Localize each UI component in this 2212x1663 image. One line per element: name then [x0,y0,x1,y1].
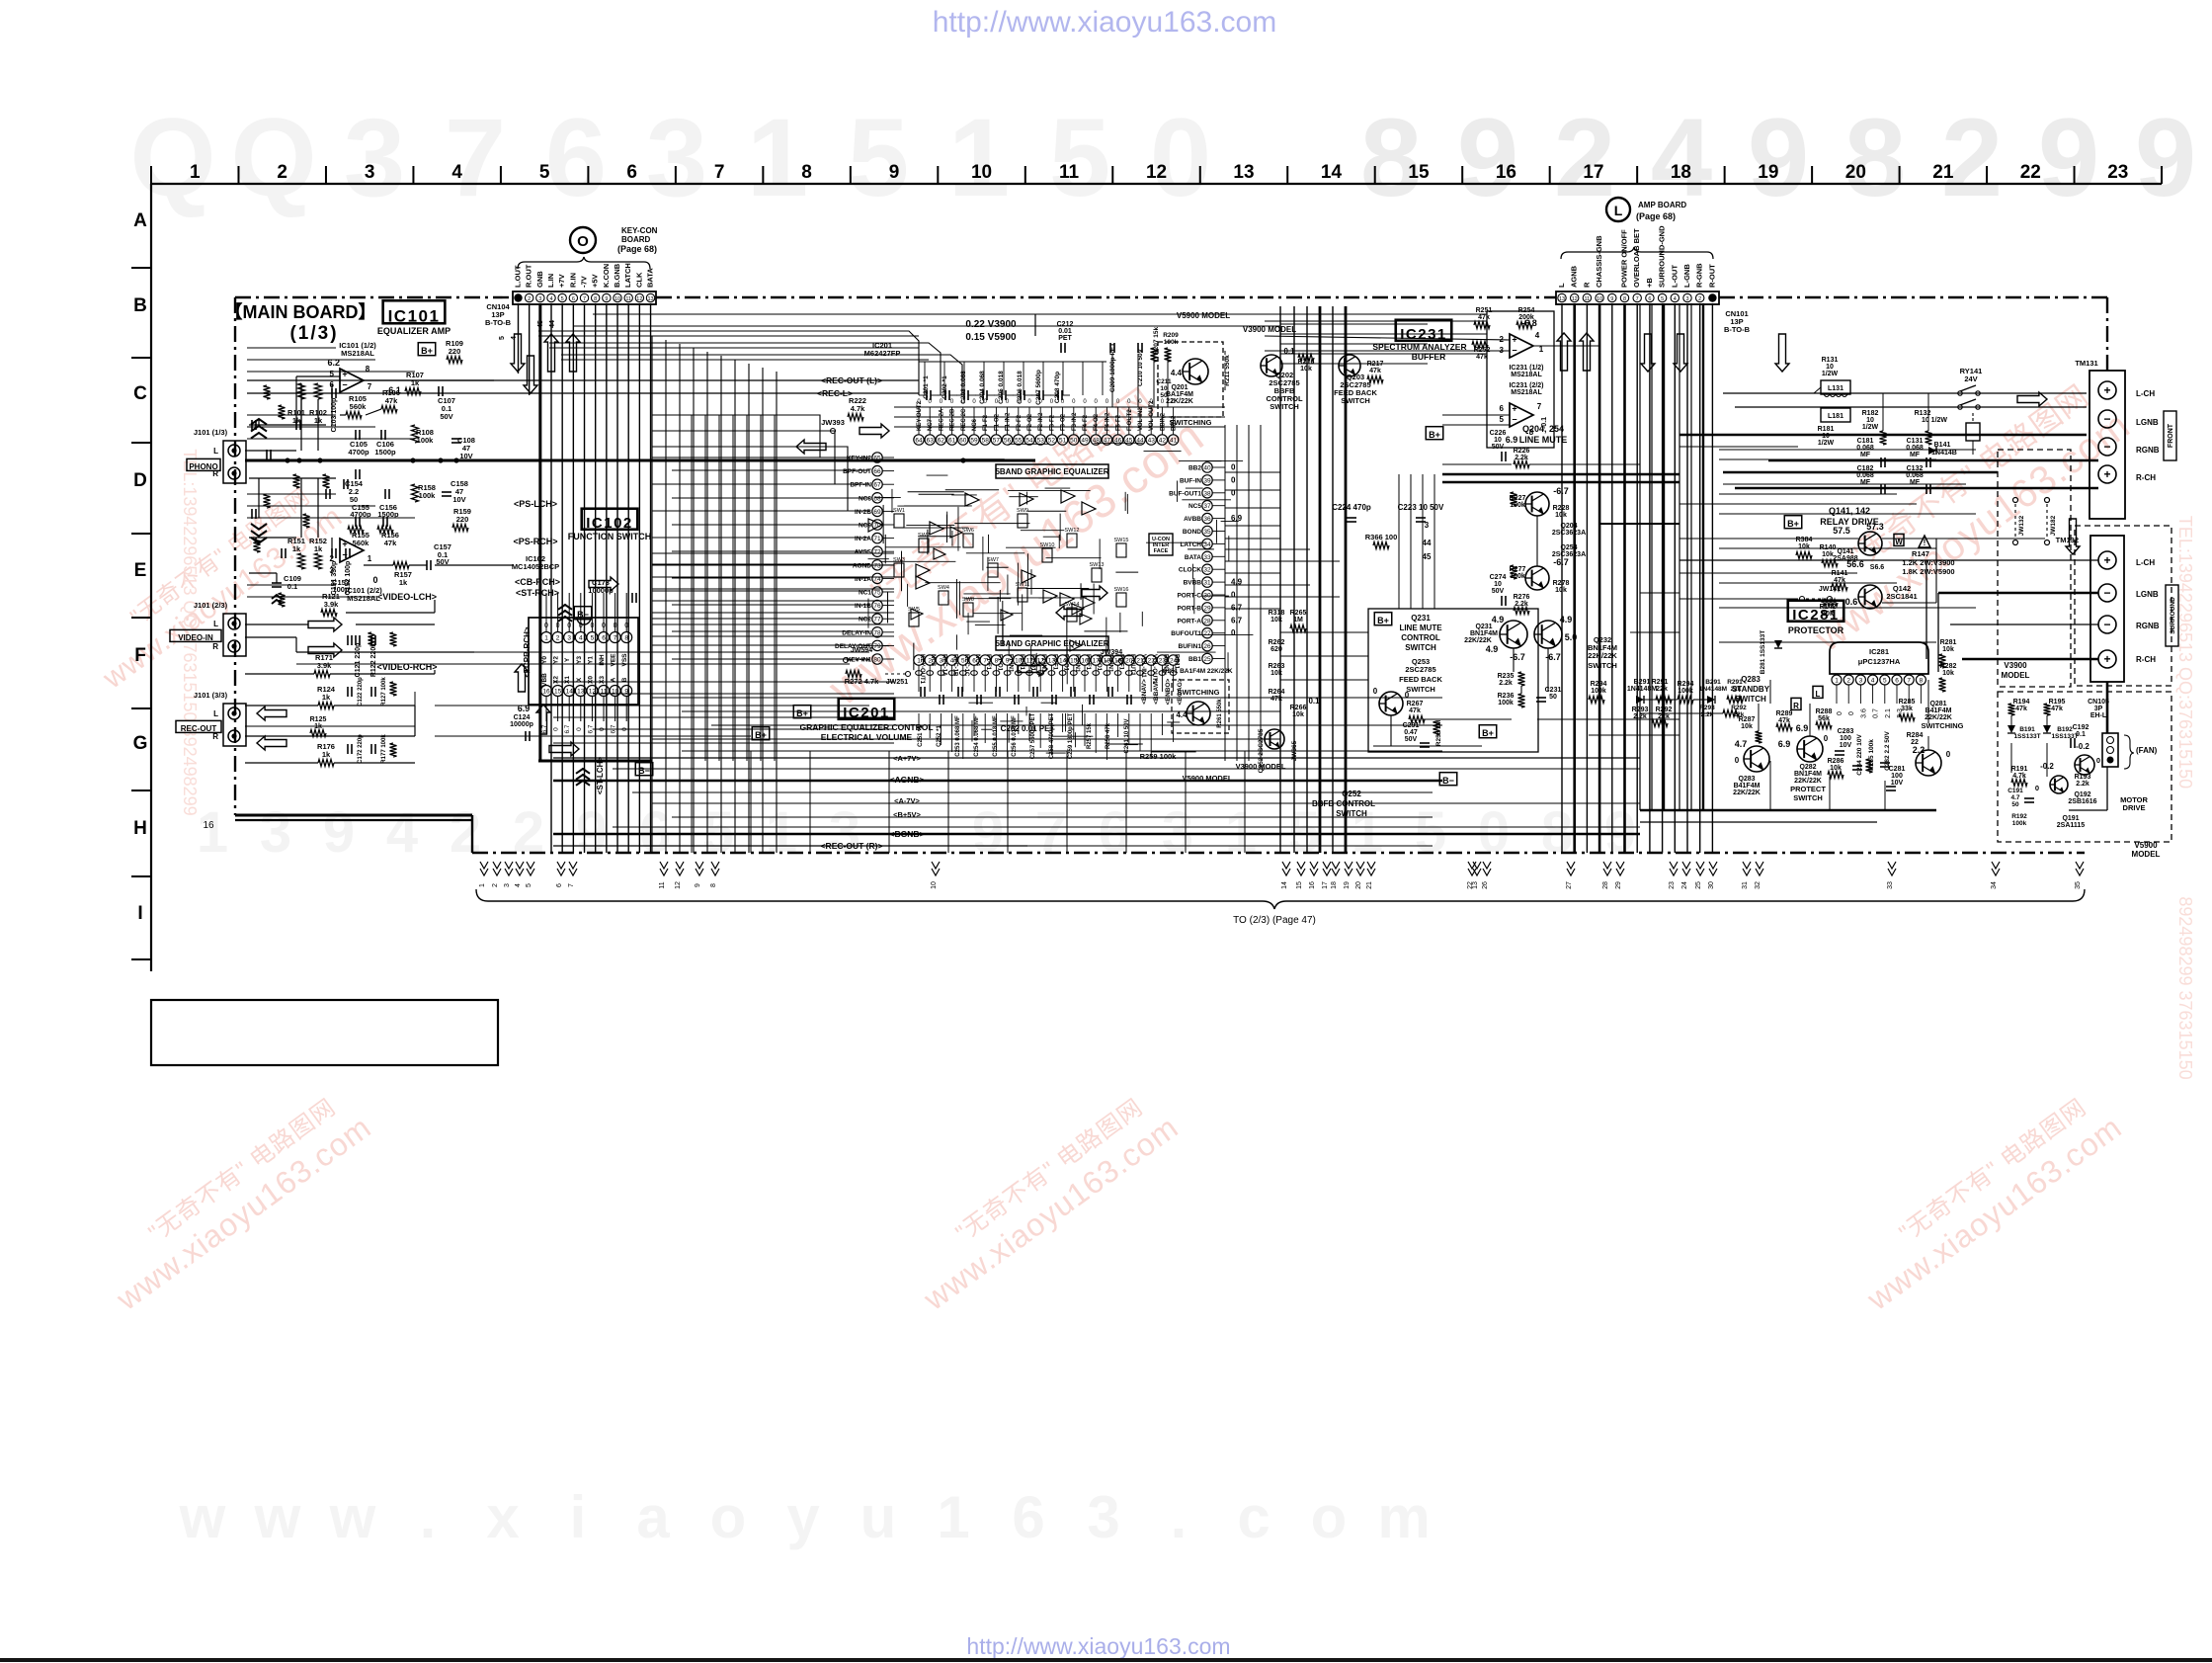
svg-text:100k: 100k [419,491,437,500]
svg-text:ELECTRICAL VOLUME: ELECTRICAL VOLUME [821,732,913,742]
svg-text:R265: R265 [1290,610,1307,617]
svg-text:<PS-LCH>: <PS-LCH> [514,499,557,509]
B+ label [1784,516,1802,529]
wire bold recout [235,819,472,821]
svg-text:R191: R191 [2011,766,2028,773]
svg-text:NC4: NC4 [974,654,980,667]
svg-text:1: 1 [479,883,486,887]
svg-text:B+: B+ [1787,519,1799,529]
svg-text:SWITCH: SWITCH [1270,402,1299,411]
svg-text:10: 10 [614,296,620,302]
svg-text:5BAND GRAPHIC EQUALIZER: 5BAND GRAPHIC EQUALIZER [995,467,1108,476]
svg-text:26: 26 [1482,881,1489,889]
svg-text:C274: C274 [1490,574,1507,581]
capacitor C105 [355,430,357,440]
svg-text:3: 3 [1685,296,1688,302]
svg-text:F1-F1: F1-F1 [985,654,991,671]
capacitor C157 [426,560,428,570]
svg-text:C226: C226 [1490,430,1507,437]
svg-text:5: 5 [539,162,550,183]
svg-text:1: 1 [937,1484,969,1550]
transistor Q202 [1261,355,1282,376]
svg-text:32: 32 [1203,567,1211,574]
transistor Q141 [1858,532,1882,555]
svg-text:36: 36 [1203,516,1211,523]
svg-text:C254 0.068 MF: C254 0.068 MF [974,715,980,757]
svg-text:Q254: Q254 [1560,544,1577,551]
svg-text:(Page 68): (Page 68) [1636,211,1676,221]
svg-text:R278: R278 [1553,580,1570,587]
svg-text:BUFOUT1: BUFOUT1 [1171,630,1201,637]
svg-text:Y: Y [564,657,571,662]
svg-text:MF: MF [1910,479,1921,486]
resistor R151 [298,553,305,569]
svg-text:R226: R226 [1514,448,1530,455]
IC281 pins [1832,675,1842,685]
transistor Q254 [1525,566,1549,590]
svg-text:+: + [2103,383,2110,397]
svg-text:REC-1B: REC-1B [952,654,958,677]
IC201 bottom pin row [914,655,924,665]
svg-text:Q: Q [129,96,215,219]
svg-text:7: 7 [583,296,586,302]
wires motor [2106,682,2109,733]
transistor Q204 [1525,492,1549,516]
svg-text:C283: C283 [1838,728,1854,735]
svg-text:J101 (1/3): J101 (1/3) [194,428,228,437]
signal arrow [1557,333,1571,371]
wires upper center [1280,313,1487,315]
svg-text:R285: R285 [1899,699,1916,706]
svg-text:55: 55 [1015,438,1023,445]
svg-text:−: − [2103,440,2110,454]
transistor Q191t [2050,776,2068,793]
PHONO label [187,458,220,470]
svg-text:4700p: 4700p [348,448,369,457]
svg-text:B.GNB: B.GNB [613,263,621,288]
svg-text:http://www.xiaoyu163.com: http://www.xiaoyu163.com [966,1633,1230,1659]
IC201 left pin col [872,453,882,462]
svg-text:1.8K 2W:V5900: 1.8K 2W:V5900 [1902,567,1954,576]
svg-text:R262: R262 [1269,639,1285,646]
VIDEO-IN label [170,629,221,641]
bottom pin markers [480,862,488,869]
svg-text:R147: R147 [1912,549,1929,558]
svg-text:TEL:13942296513 QQ:376315150: TEL:13942296513 QQ:376315150 [2175,516,2195,789]
svg-text:0: 0 [2035,784,2039,792]
svg-text:NC3: NC3 [930,654,936,667]
svg-text:22K/22K: 22K/22K [1166,398,1193,405]
svg-text:Q191: Q191 [2062,815,2079,822]
signal arrow [536,705,550,734]
svg-text:10: 10 [971,162,992,183]
transistor Q253 [1379,692,1403,715]
svg-text:R228: R228 [1553,505,1570,512]
svg-text:27: 27 [1566,881,1573,889]
svg-text:4.7: 4.7 [2010,794,2019,801]
svg-text:33: 33 [1203,554,1211,561]
svg-text:14: 14 [566,689,574,696]
svg-text:47k: 47k [2015,706,2027,712]
svg-text:x: x [486,1484,519,1550]
svg-text:0: 0 [1824,734,1829,743]
svg-text:C121 220p: C121 220p [355,643,362,678]
wires IC101a mesh [249,424,326,426]
svg-text:13: 13 [1559,296,1565,302]
KEY-CON board ref O [570,227,596,253]
svg-text:100k: 100k [1498,700,1514,707]
svg-text:R318: R318 [1269,610,1285,617]
wires video mesh [245,624,308,625]
svg-text:B-TO-B: B-TO-B [1724,325,1751,334]
svg-text:9: 9 [605,296,608,302]
transistor Q142 [1858,585,1882,609]
fan brace [2124,735,2134,769]
svg-text:11: 11 [1059,162,1080,183]
IC201 pin stubs [918,407,920,435]
svg-text:w: w [329,1484,376,1550]
svg-text:Q252: Q252 [1342,790,1361,798]
svg-text:22: 22 [2020,162,2041,183]
svg-text:Q141: Q141 [1837,548,1853,555]
svg-text:4: 4 [451,162,462,183]
wires IC281 area [1640,699,1678,701]
video/rec components [296,651,869,653]
svg-text:+B: +B [1645,278,1654,288]
signal arrow [257,736,287,750]
svg-text:R264: R264 [1269,689,1285,696]
svg-text:15: 15 [1296,881,1303,889]
capacitor C158 [442,491,451,493]
connector CN101 [1556,291,1719,304]
svg-text:2SB1616: 2SB1616 [2068,798,2096,805]
svg-text:100k: 100k [1591,688,1606,695]
wire bold phono [245,459,1035,462]
svg-text:R292: R292 [1731,705,1747,711]
svg-text:11: 11 [1585,296,1591,302]
IC281 label [1788,601,1844,622]
svg-text:I: I [137,903,142,924]
svg-text:Q231: Q231 [1411,614,1431,623]
svg-text:5: 5 [330,370,335,378]
svg-text:FRONT: FRONT [2168,423,2174,448]
svg-text:BB1: BB1 [1188,656,1201,663]
svg-text:2.2k: 2.2k [2076,781,2089,788]
svg-text:KEY-OUT2: KEY-OUT2 [917,400,923,431]
svg-text:0: 0 [553,727,560,731]
svg-text:PROTECT: PROTECT [1790,785,1826,793]
svg-text:1/2W: 1/2W [1822,371,1839,377]
IC IC102 body [529,618,638,705]
svg-text:3.6: 3.6 [1860,708,1867,718]
svg-text:560k: 560k [350,402,368,411]
svg-text:5: 5 [526,883,533,887]
svg-text:REC-1A: REC-1A [941,654,946,677]
svg-text:0.1: 0.1 [287,582,297,591]
svg-text:IC201: IC201 [843,705,890,721]
wires switch matrix [945,515,947,542]
wires switch matrix extra [946,512,948,525]
svg-text:9: 9 [2135,96,2196,219]
svg-text:0.068: 0.068 [1906,445,1924,452]
svg-text:C212: C212 [1057,321,1074,328]
svg-text:3: 3 [646,96,707,219]
svg-text:4: 4 [1871,678,1875,685]
REC-OUT label [176,720,221,732]
svg-text:K.CON: K.CON [602,264,611,288]
svg-text:R261 550k: R261 550k [1217,699,1223,728]
svg-text:V3900 MODEL: V3900 MODEL [1243,325,1296,334]
svg-text:1N4148M: 1N4148M [1627,686,1658,693]
svg-text:VBB: VBB [541,673,548,687]
IC231 label [1396,320,1452,341]
wires to IC201 left pins [652,457,869,458]
svg-text:22k: 22k [1731,686,1742,693]
svg-text:4.7: 4.7 [1735,739,1748,749]
svg-text:10V: 10V [452,495,465,504]
op-amp matrix [1020,493,1033,506]
svg-text:DRIVE: DRIVE [2123,803,2146,812]
svg-text:o: o [1311,1484,1348,1550]
svg-text:100: 100 [1891,773,1903,780]
svg-text:0.6: 0.6 [1845,597,1858,607]
svg-text:C252 *1: C252 *1 [937,724,942,746]
wires video2 [245,673,314,675]
svg-text:892498299 376315150: 892498299 376315150 [2175,896,2195,1079]
svg-text:R263: R263 [1269,663,1285,670]
svg-text:2SC2785: 2SC2785 [1405,665,1435,674]
svg-text:B: B [133,295,147,316]
inductor L131 [1821,380,1850,394]
svg-text:1500p: 1500p [374,448,396,457]
svg-text:F1-IN1: F1-IN1 [1008,654,1014,673]
svg-text:0: 0 [1150,96,1211,219]
svg-text:R209: R209 [1163,332,1179,339]
svg-text:5: 5 [499,336,506,340]
B- label [1439,773,1457,786]
svg-text:<BNBO>: <BNBO> [1165,678,1172,705]
svg-text:R194: R194 [2013,699,2030,706]
svg-text:5: 5 [1500,415,1505,424]
svg-text:BBIN2: BBIN2 [1160,412,1166,431]
svg-text:22k: 22k [1656,686,1668,693]
svg-text:B281 1SS133T: B281 1SS133T [1760,630,1766,674]
svg-text:IN-2A: IN-2A [855,536,871,542]
signal arrow [1775,334,1789,372]
svg-text:−: − [1512,346,1516,356]
svg-text:3: 3 [260,800,291,865]
svg-text:L: L [1557,283,1566,288]
svg-text:R-CH: R-CH [2136,473,2156,482]
svg-text:R291: R291 [1727,679,1743,686]
svg-text:AVBB: AVBB [1184,516,1201,523]
svg-text:21: 21 [1932,162,1954,183]
svg-text:47k: 47k [1476,354,1488,361]
svg-text:15: 15 [1408,162,1430,183]
svg-text:R.IN: R.IN [568,273,577,288]
svg-text:GRAPHIC EQUALIZER CONTROL: GRAPHIC EQUALIZER CONTROL [799,722,933,732]
svg-text:MS218AL: MS218AL [347,594,380,603]
svg-text:RGNB: RGNB [2136,446,2160,455]
svg-text:10000p: 10000p [510,721,533,728]
svg-text:<VIDEO-LCH>: <VIDEO-LCH> [377,592,437,602]
svg-text:NC1: NC1 [859,590,871,597]
wires right verticals [1639,303,1641,810]
svg-text:R276: R276 [1514,594,1530,601]
svg-text:50: 50 [1549,694,1557,701]
svg-text:IC101: IC101 [388,306,441,325]
svg-text:56: 56 [1004,438,1012,445]
boxed L [1813,686,1823,698]
svg-text:10V: 10V [1891,780,1904,787]
svg-text:F1-IN2: F1-IN2 [1006,412,1012,431]
svg-text:54: 54 [1025,438,1033,445]
svg-text:80: 80 [873,657,881,664]
svg-text:37: 37 [1203,503,1211,510]
svg-text:SURROUND: SURROUND [2170,597,2176,634]
svg-text:0.15 V5900: 0.15 V5900 [965,332,1017,343]
wires ic201-ic231 [1224,425,1226,761]
svg-text:IC102: IC102 [586,515,633,532]
svg-text:4.4: 4.4 [1171,369,1183,377]
svg-text:BUFIN1: BUFIN1 [1179,643,1202,650]
svg-text:47k: 47k [1270,696,1282,703]
svg-text:B291: B291 [1634,679,1651,686]
svg-text:10k: 10k [1270,617,1282,624]
row letters [150,184,152,971]
capacitor C156 [382,517,384,527]
svg-text:2: 2 [492,883,499,887]
svg-text:FUNCTION SWITCH: FUNCTION SWITCH [568,532,652,541]
svg-text:R287: R287 [1739,716,1756,723]
svg-text:SWITCHING: SWITCHING [1922,721,1964,730]
svg-text:+: + [342,540,347,549]
resistor R152 [315,553,322,569]
transistor Q282 [1797,736,1823,762]
svg-text:-7V: -7V [580,276,589,288]
svg-text:13: 13 [577,689,585,696]
svg-text:AGND: AGND [853,562,871,569]
svg-text:Q251 BA1F4M 22K/22K: Q251 BA1F4M 22K/22K [1162,668,1232,675]
wire [245,450,249,452]
svg-text:0.47: 0.47 [1404,729,1418,736]
svg-text:MF: MF [1860,452,1871,458]
svg-text:29: 29 [1615,881,1622,889]
op-amp U231b [1510,403,1533,427]
TM132 dashed box [2075,526,2171,686]
svg-text:14: 14 [1281,881,1288,889]
svg-text:1k: 1k [322,693,331,702]
svg-text:R177 100k: R177 100k [381,734,387,764]
svg-text:S6.6: S6.6 [1870,564,1885,571]
wires CN101 drops [1561,303,1563,853]
svg-text:R127 100k: R127 100k [381,677,387,707]
svg-text:66: 66 [873,468,881,475]
svg-text:J101 (3/3): J101 (3/3) [194,691,228,700]
svg-text:G: G [133,733,148,754]
svg-text:4: 4 [511,336,518,340]
svg-text:64: 64 [915,438,923,445]
svg-text:C282 2.2 50V: C282 2.2 50V [1884,730,1891,770]
boxed R [1791,698,1801,709]
svg-text:-6.7: -6.7 [1553,557,1569,567]
svg-text:BUF-IN: BUF-IN [1180,477,1201,484]
IC201 top pin row [914,435,924,445]
svg-text:【MAIN BOARD】: 【MAIN BOARD】 [225,302,376,322]
svg-text:BOND: BOND [1183,529,1201,536]
svg-text:28: 28 [1203,618,1211,624]
svg-text:9: 9 [1610,296,1613,302]
svg-text:17: 17 [1583,162,1603,183]
svg-text:RGNB: RGNB [2136,622,2160,630]
svg-text:V5900 MODEL: V5900 MODEL [1177,311,1230,320]
svg-text:LINE MUTE: LINE MUTE [1399,624,1442,632]
signal arrow [1018,662,1047,676]
svg-text:IC281: IC281 [1869,647,1889,656]
svg-text:10k: 10k [1942,646,1954,653]
B- label [574,607,592,620]
svg-text:B+: B+ [1482,728,1494,738]
capacitor C103 [331,388,333,398]
svg-text:F-OUT1: F-OUT1 [1129,654,1135,676]
brace CN104 [518,257,650,269]
IC201 right pin col [1202,462,1212,472]
5band EQ box 1 [996,464,1108,478]
svg-text:<REC-OUT (L)>: <REC-OUT (L)> [821,375,882,385]
svg-text:45: 45 [1423,552,1432,561]
svg-text:C253 0.068 MF: C253 0.068 MF [955,715,961,757]
svg-text:0: 0 [1231,475,1236,484]
svg-text:F3-O1: F3-O1 [1063,654,1069,672]
wires recout [245,705,318,707]
svg-text:C124: C124 [514,714,531,721]
svg-text:3: 3 [1087,1484,1119,1550]
svg-text:JW182: JW182 [2050,515,2057,536]
svg-text:1: 1 [747,96,808,219]
svg-text:PORT-B: PORT-B [1177,605,1201,612]
svg-text:E: E [134,560,147,581]
svg-text:53: 53 [1037,438,1045,445]
svg-text:4.9: 4.9 [1492,615,1505,624]
svg-text:JW594: JW594 [851,647,872,654]
svg-text:C224 470p: C224 470p [1332,503,1371,512]
svg-text:B192: B192 [2057,726,2073,733]
svg-text:18: 18 [1331,881,1338,889]
svg-text:1: 1 [766,800,797,865]
svg-text:VOL-IN1: VOL-IN1 [1140,654,1146,678]
bottom brace [476,889,2085,909]
capacitor C108 [451,438,461,440]
svg-text:0: 0 [1231,591,1236,600]
connector J101 (1/3) [223,441,246,483]
svg-text:FACE: FACE [1154,548,1169,554]
svg-text:SW3: SW3 [893,557,905,563]
svg-text:SW9: SW9 [1017,508,1028,514]
B+ label [752,727,770,740]
svg-text:LINE MUTE: LINE MUTE [1519,435,1568,445]
signal arrow [515,664,529,692]
svg-text:i: i [570,1484,587,1550]
svg-text:4: 4 [515,883,522,887]
svg-text:<PS-RCH>: <PS-RCH> [513,537,557,546]
wires vertical field [651,336,653,853]
diode B191 [2007,725,2015,733]
svg-text:L-CH: L-CH [2136,389,2155,398]
svg-text:R-CH: R-CH [2136,655,2156,664]
TM131 terminals [2098,381,2116,399]
svg-text:F1-O2: F1-O2 [994,413,1000,431]
svg-text:10 1/2W: 10 1/2W [1922,417,1947,424]
